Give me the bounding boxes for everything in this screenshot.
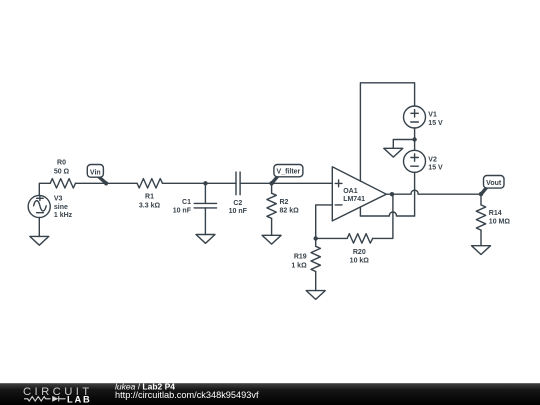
wire: R0 to R1	[76, 182, 138, 184]
svg-text:1 kHz: 1 kHz	[54, 212, 73, 219]
svg-text:15 V: 15 V	[428, 165, 443, 172]
capacitor C2	[235, 172, 237, 195]
svg-text:R2: R2	[280, 199, 289, 206]
svg-text:10 kΩ: 10 kΩ	[350, 257, 370, 264]
svg-text:LAB: LAB	[67, 394, 92, 404]
wire: output to Vout with hop over V2 wire	[386, 190, 481, 194]
wire: R19 to ground	[315, 272, 317, 291]
svg-text:10 nF: 10 nF	[173, 208, 192, 215]
svg-text:V2: V2	[428, 157, 437, 164]
wire: op-amp - input to feedback node	[316, 205, 333, 239]
node D (op-amp output)	[390, 192, 394, 196]
resistor R14	[480, 194, 482, 205]
voltage source V1	[404, 106, 426, 128]
logo CircuitLab	[23, 386, 93, 405]
wire: node B to R20	[316, 237, 348, 239]
svg-text:Vout: Vout	[486, 180, 502, 187]
wire: node to C1	[204, 183, 206, 203]
svg-text:V3: V3	[54, 195, 63, 202]
node C (supply midpoint)	[412, 137, 416, 141]
wire: op-amp V- supply stub	[359, 207, 361, 216]
svg-text:sine: sine	[54, 204, 68, 211]
svg-text:LM741: LM741	[343, 196, 365, 203]
wire: V3 top to R0 left	[39, 183, 50, 196]
svg-text:R19: R19	[294, 254, 307, 261]
wire: C1 to ground	[204, 208, 206, 235]
svg-text:R0: R0	[57, 159, 66, 166]
voltage source V2	[404, 150, 426, 172]
wire: R14 to ground	[480, 230, 482, 246]
node A (C1 tap)	[203, 181, 207, 185]
wire: V- rail with hop over feedback riser	[360, 212, 414, 216]
svg-text:R1: R1	[145, 194, 154, 201]
wire: V2 bottom down to V- rail	[414, 172, 416, 216]
svg-text:82 kΩ: 82 kΩ	[280, 207, 300, 214]
svg-text:OA1: OA1	[343, 188, 358, 195]
svg-text:Vin: Vin	[90, 170, 101, 177]
footer title text	[115, 381, 259, 399]
wire: V3 bottom to ground	[38, 218, 40, 237]
node B (feedback node)	[314, 236, 318, 240]
svg-text:10 MΩ: 10 MΩ	[489, 219, 511, 226]
svg-text:15 V: 15 V	[428, 120, 443, 127]
wire: node C to ground stub	[393, 140, 414, 149]
ground (R14)	[472, 246, 491, 255]
svg-text:50 Ω: 50 Ω	[54, 168, 70, 175]
svg-text:http://circuitlab.com/ck348k95: http://circuitlab.com/ck348k95493vf	[115, 390, 259, 400]
ground (R2)	[262, 235, 281, 244]
flag Vin	[87, 165, 108, 186]
svg-text:1 kΩ: 1 kΩ	[291, 262, 307, 269]
capacitor C1	[194, 202, 216, 204]
node V_filter	[269, 181, 273, 185]
flag Vout	[479, 176, 504, 197]
ground (C1)	[196, 235, 215, 244]
svg-text:C1: C1	[182, 199, 191, 206]
voltage source V3 (sine)	[28, 195, 50, 217]
svg-text:3.3 kΩ: 3.3 kΩ	[139, 202, 161, 209]
svg-text:R14: R14	[489, 210, 502, 217]
wire: R20 right to output node (feedback riser)	[373, 194, 393, 238]
svg-text:V_filter: V_filter	[277, 169, 301, 176]
node Vout	[479, 192, 483, 196]
svg-text:C2: C2	[233, 200, 242, 207]
wire: R1 to C2	[163, 182, 237, 184]
resistor R0	[50, 179, 75, 188]
svg-text:V1: V1	[428, 112, 437, 119]
wire: op-amp V+ supply stub and top rail	[360, 83, 414, 182]
resistor R20	[347, 234, 373, 243]
flag V_filter	[270, 165, 303, 186]
ground (R19)	[306, 291, 325, 300]
resistor R1	[137, 179, 162, 188]
wire: R2 to ground	[271, 218, 273, 235]
svg-text:10 nF: 10 nF	[229, 208, 248, 215]
ground (supply)	[384, 148, 403, 157]
resistor R19	[315, 238, 317, 246]
op-amp OA1	[332, 167, 386, 221]
wire: C2 to op-amp + input	[240, 182, 332, 184]
svg-text:R20: R20	[353, 249, 366, 256]
resistor R2	[271, 183, 273, 193]
ground (V3)	[30, 236, 49, 245]
wire: V1 bottom to V2 top	[414, 128, 416, 150]
